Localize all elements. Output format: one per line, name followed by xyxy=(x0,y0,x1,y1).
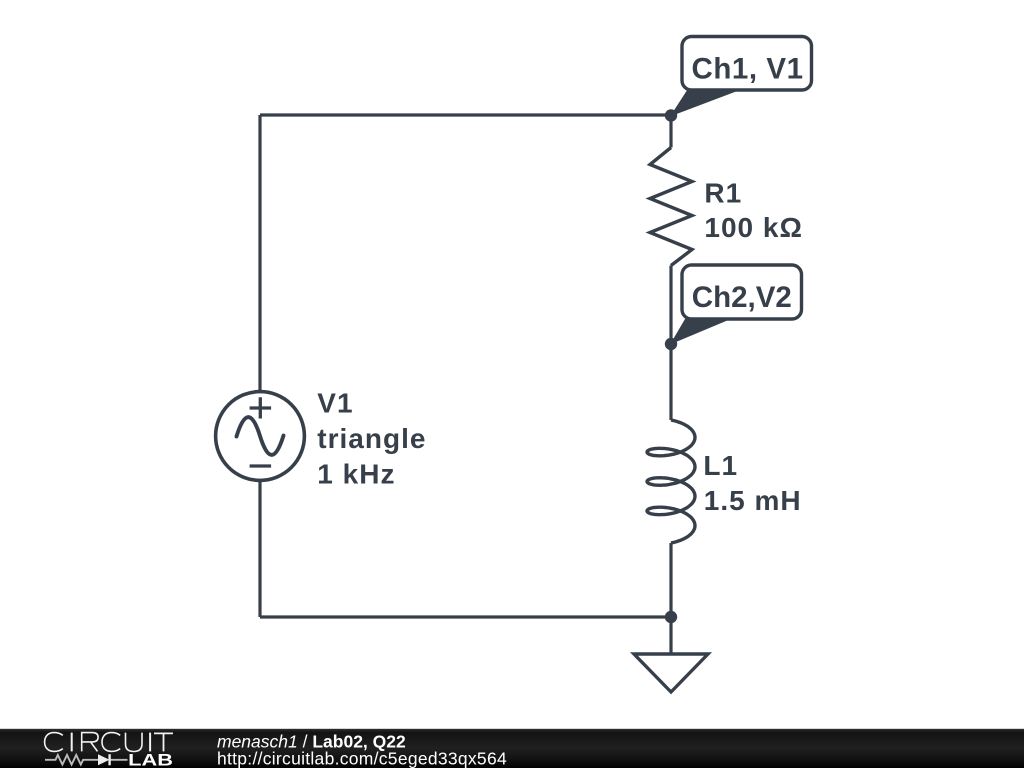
wire bottom rail xyxy=(260,615,671,618)
svg-text:1.5 mH: 1.5 mH xyxy=(704,485,802,516)
svg-text:L1: L1 xyxy=(703,450,738,481)
logo CIRCUIT wordmark xyxy=(45,733,173,752)
svg-text:Ch1, V1: Ch1, V1 xyxy=(692,53,804,86)
svg-text:LAB: LAB xyxy=(128,752,173,768)
callout pointer Ch1 xyxy=(670,90,736,117)
sine wave of V1 xyxy=(237,417,284,455)
wire inductor L1 to ground node xyxy=(669,543,672,617)
wire left upper: down to V1 source xyxy=(258,115,261,392)
wire ground stub xyxy=(669,617,672,654)
node B junction dot xyxy=(665,338,677,350)
ground symbol xyxy=(634,654,708,692)
node A junction dot xyxy=(665,109,677,121)
svg-text:R1: R1 xyxy=(704,177,742,208)
plus sign of V1 xyxy=(250,397,272,418)
wire top: from left branch to node A xyxy=(260,113,671,116)
label L1 value xyxy=(703,450,801,516)
minus sign of V1 xyxy=(250,464,272,467)
callout pointer Ch2 xyxy=(670,317,732,345)
voltage source V1 xyxy=(216,392,305,481)
wire node A to resistor R1 xyxy=(669,115,672,148)
ground node junction dot xyxy=(665,611,677,623)
label R1 value xyxy=(704,177,803,243)
svg-text:100 kΩ: 100 kΩ xyxy=(704,212,803,243)
svg-text:http://circuitlab.com/c5eged33: http://circuitlab.com/c5eged33qx564 xyxy=(217,748,507,768)
svg-text:V1: V1 xyxy=(317,387,353,418)
inductor L1 xyxy=(647,420,695,543)
logo resistor-diode glyph xyxy=(45,754,128,765)
resistor R1 xyxy=(650,148,692,266)
label V1 value xyxy=(317,387,426,489)
footer bar xyxy=(0,729,1024,768)
wire left lower: from V1 source to bottom rail xyxy=(258,480,261,617)
svg-text:1 kHz: 1 kHz xyxy=(317,459,395,490)
wire resistor R1 to inductor L1 (through node B) xyxy=(669,266,672,421)
callout box Ch1, V1 xyxy=(682,37,812,91)
svg-text:triangle: triangle xyxy=(317,423,426,454)
svg-text:Ch2,V2: Ch2,V2 xyxy=(692,281,792,314)
callout box Ch2,V2 xyxy=(682,265,802,319)
